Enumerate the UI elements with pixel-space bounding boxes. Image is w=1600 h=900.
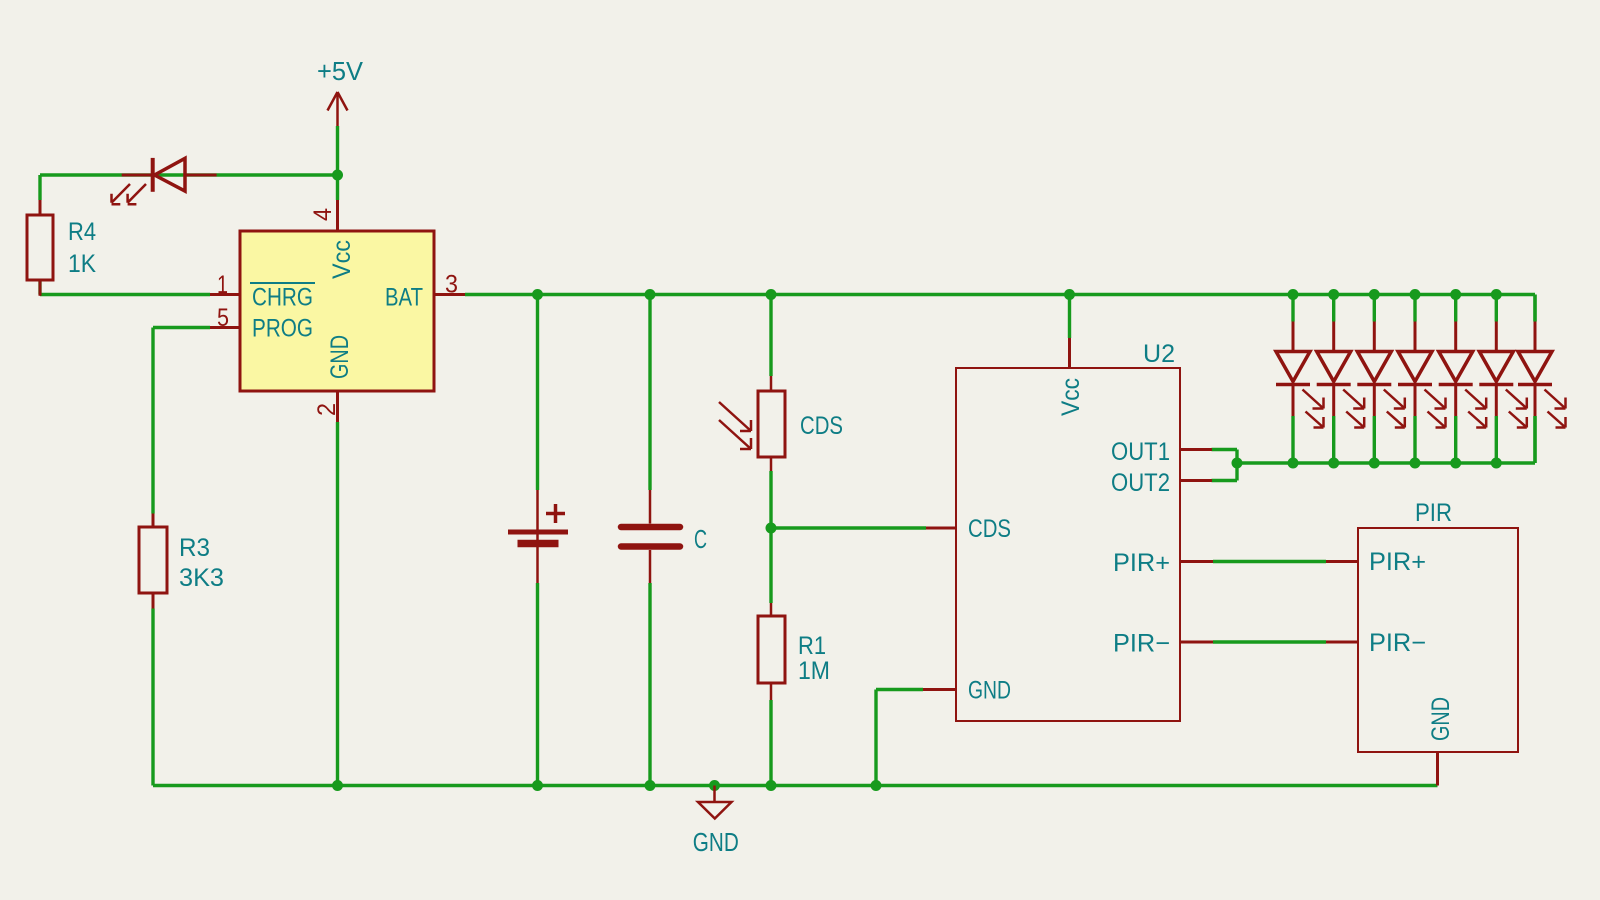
svg-text:GND: GND	[968, 677, 1011, 705]
svg-text:CHRG: CHRG	[252, 284, 313, 312]
svg-text:GND: GND	[693, 827, 739, 857]
svg-text:3K3: 3K3	[179, 564, 224, 592]
svg-text:PIR: PIR	[1415, 499, 1452, 527]
svg-text:4: 4	[309, 208, 337, 221]
svg-text:2: 2	[313, 403, 341, 416]
svg-text:U2: U2	[1143, 340, 1175, 368]
svg-text:3: 3	[445, 271, 458, 299]
svg-text:R3: R3	[179, 534, 210, 562]
svg-text:PIR+: PIR+	[1369, 548, 1426, 576]
svg-text:1: 1	[217, 271, 228, 299]
svg-text:CDS: CDS	[968, 515, 1011, 543]
svg-text:C: C	[694, 524, 707, 554]
svg-text:OUT1: OUT1	[1111, 438, 1170, 466]
svg-text:PIR−: PIR−	[1369, 629, 1426, 657]
svg-text:1K: 1K	[68, 250, 96, 278]
svg-text:Vcc: Vcc	[1057, 378, 1085, 416]
svg-text:OUT2: OUT2	[1111, 469, 1170, 497]
svg-text:Vcc: Vcc	[328, 240, 356, 279]
svg-text:GND: GND	[1427, 697, 1455, 741]
svg-text:PROG: PROG	[252, 315, 313, 343]
svg-text:+5V: +5V	[317, 56, 364, 86]
svg-text:PIR+: PIR+	[1113, 549, 1170, 577]
svg-text:R1: R1	[798, 632, 826, 660]
svg-text:R4: R4	[68, 218, 96, 246]
svg-text:5: 5	[217, 304, 229, 332]
svg-text:GND: GND	[326, 335, 354, 379]
svg-text:PIR−: PIR−	[1113, 630, 1170, 658]
svg-text:CDS: CDS	[800, 412, 843, 440]
svg-text:BAT: BAT	[385, 284, 423, 312]
svg-text:1M: 1M	[798, 657, 830, 685]
